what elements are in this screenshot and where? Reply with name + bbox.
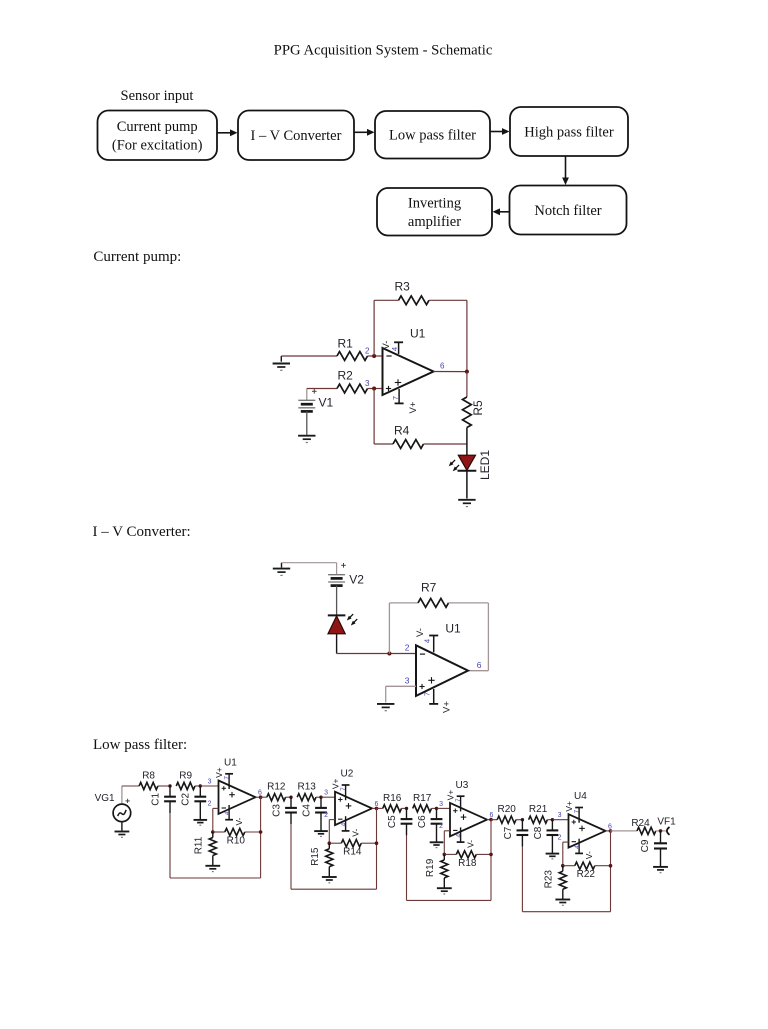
svg-text:V2: V2 [349, 572, 364, 586]
svg-text:R16: R16 [383, 793, 402, 804]
node R18 junction [489, 853, 493, 857]
svg-text:V-: V- [234, 817, 244, 825]
node junction pin2 (I-V) [387, 652, 391, 656]
resistor R18 [456, 851, 477, 869]
node feedback junction (stage 1) [211, 830, 215, 834]
ground (LED1) [458, 500, 475, 507]
svg-text:4: 4 [574, 845, 581, 849]
arrow low pass to high pass [490, 128, 510, 135]
svg-text:(For excitation): (For excitation) [112, 137, 203, 153]
wire R4 to LED column [424, 443, 467, 445]
wire photodiode to op-amp pin 2 [337, 634, 416, 654]
wire output to R5 [466, 372, 468, 397]
svg-text:V-: V- [350, 829, 360, 837]
wire output to feedback (stage 4) [610, 831, 612, 866]
ground (R11) [205, 866, 220, 872]
svg-text:V+: V+ [564, 801, 574, 812]
wire node to op-amp pin 3 (stage 3) [437, 807, 451, 809]
svg-text:C7: C7 [503, 826, 514, 839]
wire to R10 [213, 831, 225, 833]
node C4 [319, 796, 322, 799]
wire R1 to op-amp pin 2 [368, 355, 383, 357]
ground (C6) [430, 842, 444, 847]
svg-text:7: 7 [224, 776, 231, 780]
V- supply bar (stage 1) (pin 4) [224, 805, 244, 826]
title text [274, 43, 493, 59]
svg-text:R8: R8 [142, 771, 155, 782]
wire op-amp pin 2 down (stage 3) [444, 831, 450, 855]
svg-text:R5: R5 [471, 400, 485, 416]
node output junction (stage 2) [375, 807, 379, 811]
node junction pin2 [372, 354, 376, 358]
svg-text:4: 4 [423, 639, 432, 643]
op-amp U1 (I-V) [416, 622, 468, 696]
section label I-V Converter [93, 524, 191, 540]
svg-text:R19: R19 [425, 858, 436, 877]
svg-text:V1: V1 [319, 396, 334, 410]
node feedback junction (stage 4) [561, 864, 565, 868]
ground (current pump input) [273, 356, 290, 370]
op-amp U1 [219, 758, 256, 814]
wire R9 to node [195, 785, 200, 787]
wire R7 to output [449, 603, 489, 671]
wire op-amp output (stage 3) [487, 819, 491, 821]
section label Current pump [93, 249, 181, 265]
resistor R19 [425, 854, 448, 888]
svg-text:3: 3 [558, 812, 562, 819]
resistor R24 [631, 818, 655, 835]
svg-text:V-: V- [465, 840, 475, 848]
wire R14 to output column [361, 842, 376, 844]
svg-text:Sensor input: Sensor input [121, 88, 194, 104]
wire op-amp pin 3 to ground [386, 686, 416, 702]
svg-text:Current pump: Current pump [117, 119, 198, 135]
ground (R19) [437, 888, 452, 894]
ground (R23) [555, 900, 570, 906]
svg-text:3: 3 [324, 790, 328, 797]
wire C7 to feedback rail [522, 847, 610, 912]
resistor R22 [575, 862, 596, 880]
pin 6 label (stage 3) [490, 812, 494, 819]
svg-text:R14: R14 [343, 847, 362, 858]
wire R10 to output column [245, 831, 261, 833]
node output junction [465, 370, 469, 374]
node feedback junction (stage 3) [443, 853, 447, 857]
svg-text:7: 7 [574, 809, 581, 813]
svg-text:V-: V- [584, 851, 594, 859]
op-amp U1 (current pump) [383, 327, 434, 396]
resistor R2 [337, 369, 368, 393]
svg-text:U4: U4 [574, 791, 587, 802]
svg-text:R9: R9 [179, 771, 192, 782]
pin 2 label (stage 4) [558, 834, 562, 841]
svg-text:C1: C1 [150, 792, 161, 805]
wire V1 to ground [306, 411, 308, 434]
arrow current pump to I-V [217, 129, 238, 136]
svg-text:R3: R3 [395, 280, 411, 294]
LED LED1 [449, 450, 493, 480]
capacitor C2 [181, 786, 207, 820]
pin 6 label [440, 362, 445, 371]
svg-text:4: 4 [390, 347, 399, 351]
svg-text:7: 7 [391, 396, 400, 400]
battery V1 [298, 396, 333, 412]
op-amp U3 [450, 780, 487, 836]
block Current pump [98, 111, 218, 161]
resistor R8 [139, 771, 158, 790]
ground (C2) [194, 820, 208, 825]
svg-text:C2: C2 [181, 792, 192, 805]
resistor R10 [225, 828, 246, 846]
arrow I-V to low pass [354, 129, 375, 136]
wire op-amp pin 2 down (stage 4) [563, 842, 569, 866]
block Low pass filter [375, 111, 490, 159]
svg-text:R24: R24 [631, 818, 650, 829]
wire R17 to node [432, 807, 437, 809]
ground (C9) [653, 867, 668, 873]
svg-text:I – V Converter:: I – V Converter: [93, 524, 191, 540]
node C6 [435, 807, 438, 810]
svg-text:C3: C3 [271, 804, 282, 817]
wire feedback up to R7 [389, 603, 418, 654]
resistor R12 [267, 782, 286, 801]
svg-text:R23: R23 [544, 870, 555, 889]
svg-text:7: 7 [423, 692, 432, 696]
capacitor C7 [503, 820, 529, 847]
block I-V Converter [238, 111, 354, 161]
svg-text:R18: R18 [458, 858, 477, 869]
V- supply bar (stage 4) (pin 4) [574, 839, 594, 860]
wire node to op-amp pin 3 (stage 1) [200, 785, 218, 787]
svg-text:U1: U1 [445, 622, 461, 636]
svg-text:V+: V+ [445, 790, 455, 801]
resistor R13 [297, 782, 316, 801]
wire R16 to node [402, 807, 407, 809]
node output junction (stage 1) [259, 795, 263, 799]
wire node to op-amp pin 3 (stage 4) [552, 819, 568, 821]
wire C5 to feedback rail [407, 835, 492, 900]
svg-text:V+: V+ [330, 778, 340, 789]
wire R18 to output column [476, 853, 491, 855]
svg-text:7: 7 [455, 798, 462, 802]
wire R5 to LED1 [466, 428, 468, 456]
svg-text:4: 4 [224, 811, 231, 815]
ground (V2) [273, 563, 290, 576]
arrow notch to inverting [493, 208, 510, 215]
node output junction (stage 4) [609, 829, 613, 833]
svg-text:V+: V+ [214, 767, 224, 778]
svg-text:R20: R20 [498, 804, 517, 815]
svg-text:R4: R4 [394, 424, 410, 438]
wire op-amp output (stage 2) [372, 807, 377, 809]
svg-text:R22: R22 [577, 869, 596, 880]
resistor R14 [341, 840, 362, 858]
svg-text:2: 2 [324, 812, 328, 819]
wire R24 to VF1 [656, 830, 667, 832]
V+ supply bar (stage 3) (pin 7) [445, 790, 464, 812]
svg-text:2: 2 [405, 643, 410, 653]
ground (V1) [298, 436, 315, 443]
node C8 [551, 818, 554, 821]
wire R12 to node [286, 796, 291, 798]
svg-text:3: 3 [405, 676, 410, 686]
pin 2 label (I-V) [405, 643, 410, 653]
svg-text:2: 2 [365, 347, 370, 356]
resistor R5 [463, 397, 486, 428]
svg-text:Low pass filter: Low pass filter [389, 128, 476, 144]
op-amp U4 [569, 791, 606, 847]
node C5 [405, 807, 408, 810]
svg-text:2: 2 [558, 834, 562, 841]
svg-text:3: 3 [365, 379, 370, 388]
pin 3 label (stage 2) [324, 790, 328, 797]
resistor R16 [383, 793, 402, 812]
pin 3 label (stage 4) [558, 812, 562, 819]
resistor R4 [393, 424, 424, 449]
V+ supply bar (I-V pin 7) [423, 689, 453, 713]
wire C1 to feedback rail [170, 813, 261, 878]
svg-text:Notch filter: Notch filter [534, 203, 601, 219]
capacitor C5 [387, 808, 413, 835]
pin 3 label [365, 379, 370, 388]
wire op-amp output (stage 4) [606, 830, 611, 832]
node junction pin3 [372, 387, 376, 391]
pin 2 label (stage 1) [208, 801, 212, 808]
pin 6 label (stage 1) [258, 790, 262, 797]
svg-text:R17: R17 [413, 793, 432, 804]
svg-text:C8: C8 [533, 826, 544, 839]
op-amp U2 [335, 769, 372, 825]
capacitor C8 [533, 820, 559, 854]
V- supply bar (I-V pin 4) [415, 628, 438, 652]
resistor R7 [418, 581, 449, 608]
svg-text:V+: V+ [442, 701, 453, 713]
node R10 junction [259, 830, 263, 834]
svg-text:I – V Converter: I – V Converter [251, 128, 342, 144]
wire to R16 [377, 807, 383, 809]
svg-text:R11: R11 [194, 836, 205, 854]
resistor R23 [544, 866, 567, 900]
svg-text:3: 3 [208, 779, 212, 786]
svg-text:6: 6 [440, 362, 445, 371]
svg-text:PPG Acquisition System - Schem: PPG Acquisition System - Schematic [274, 43, 493, 59]
plus sign V1 terminal [312, 389, 317, 394]
V- supply bar (stage 3) (pin 4) [455, 827, 475, 848]
svg-text:U1: U1 [224, 758, 237, 769]
section label Low pass filter [93, 737, 187, 753]
svg-text:R15: R15 [310, 847, 321, 866]
svg-text:R12: R12 [267, 782, 286, 793]
battery V2 [328, 572, 364, 586]
V+ supply bar (pin 7) [391, 389, 419, 413]
svg-text:High pass filter: High pass filter [524, 125, 614, 141]
wire U4 output to R24 [611, 830, 638, 832]
V+ supply bar (stage 4) (pin 7) [564, 801, 583, 823]
svg-text:VF1: VF1 [657, 817, 676, 828]
wire output to feedback (stage 3) [490, 820, 492, 855]
svg-text:2: 2 [439, 823, 443, 830]
wire to R8 [122, 785, 139, 787]
V+ supply bar (stage 1) (pin 7) [214, 767, 233, 789]
pin 2 label (stage 2) [324, 812, 328, 819]
block Notch filter [510, 186, 627, 235]
V- supply bar (stage 2) (pin 4) [340, 816, 360, 837]
capacitor C4 [301, 797, 327, 831]
svg-text:V-: V- [415, 628, 426, 637]
photodiode D1 [328, 614, 357, 634]
svg-text:C4: C4 [301, 804, 312, 817]
resistor R3 [395, 280, 430, 305]
svg-text:amplifier: amplifier [408, 214, 461, 230]
capacitor C9 [640, 831, 667, 867]
wire to R20 [491, 819, 497, 821]
capacitor C6 [417, 808, 443, 842]
svg-text:R2: R2 [338, 369, 354, 383]
pin 6 label (stage 2) [375, 801, 379, 808]
wire ground to R1 [281, 355, 337, 357]
wire op-amp pin 2 down (stage 2) [329, 820, 335, 844]
wire R21 to node [547, 819, 552, 821]
resistor R21 [529, 804, 548, 823]
node C3 [289, 796, 292, 799]
wire LED1 to ground [466, 471, 468, 499]
wire node to op-amp pin 3 (stage 2) [321, 796, 335, 798]
wire R3 to output column [429, 300, 467, 371]
wire op-amp pin 2 down (stage 1) [213, 808, 219, 832]
resistor R20 [497, 804, 516, 823]
svg-text:U3: U3 [456, 780, 469, 791]
svg-text:U1: U1 [410, 327, 426, 341]
pin 2 label [365, 347, 370, 356]
wire C3 to feedback rail [291, 824, 377, 889]
terminal VF1 [657, 817, 676, 835]
wire to R18 [444, 853, 456, 855]
ground (C4) [314, 831, 328, 836]
svg-text:2: 2 [208, 801, 212, 808]
pin 3 label (I-V) [405, 676, 410, 686]
wire to R22 [563, 865, 575, 867]
svg-text:R10: R10 [227, 836, 246, 847]
node C2 [199, 784, 202, 787]
resistor R17 [413, 793, 432, 812]
svg-text:LED1: LED1 [478, 450, 492, 480]
wire output to feedback (stage 2) [376, 808, 378, 843]
node R14 junction [375, 841, 379, 845]
svg-text:6: 6 [477, 660, 482, 670]
wire to R14 [329, 842, 341, 844]
V- supply bar (pin 4) [381, 341, 403, 354]
wire V2 to photodiode [336, 586, 338, 616]
resistor R11 [194, 832, 217, 866]
svg-text:VG1: VG1 [95, 793, 115, 804]
svg-text:R13: R13 [298, 782, 317, 793]
wire output to feedback (stage 1) [260, 797, 262, 832]
block Inverting amplifier [377, 188, 492, 236]
node output junction (stage 3) [489, 818, 493, 822]
svg-text:C9: C9 [640, 839, 651, 852]
resistor R15 [310, 843, 333, 877]
wire R22 to output column [595, 865, 611, 867]
svg-text:Inverting: Inverting [408, 195, 461, 211]
block High pass filter [510, 107, 628, 156]
svg-text:Low pass filter:: Low pass filter: [93, 737, 187, 753]
svg-text:R21: R21 [529, 804, 548, 815]
source VG1 [95, 786, 131, 822]
arrow high pass to notch [562, 156, 569, 185]
wire junction up to R3 [374, 300, 398, 356]
pin 3 label (stage 1) [208, 779, 212, 786]
resistor R1 [337, 337, 368, 361]
ground (VG1) [115, 832, 130, 838]
wire op-amp output (stage 1) [256, 796, 261, 798]
svg-text:4: 4 [340, 822, 347, 826]
svg-text:C5: C5 [387, 815, 398, 828]
svg-text:R7: R7 [421, 581, 437, 595]
svg-text:V+: V+ [408, 401, 419, 413]
ground (I-V pin 3) [377, 704, 394, 711]
wire ground to V2 [282, 563, 337, 575]
pin 6 label (I-V) [477, 660, 482, 670]
node feedback junction (stage 2) [328, 841, 332, 845]
resistor R9 [176, 771, 195, 790]
pin 2 label (stage 3) [439, 823, 443, 830]
wire VG1 to ground [121, 822, 123, 831]
pin 3 label (stage 3) [439, 801, 443, 808]
svg-text:C6: C6 [417, 815, 428, 828]
wire R13 to node [316, 796, 321, 798]
node C1 [168, 784, 171, 787]
node C7 [521, 818, 524, 821]
capacitor C3 [271, 797, 297, 824]
ground (C8) [546, 854, 560, 859]
pin 6 label (stage 4) [608, 823, 612, 830]
wire to R12 [261, 796, 267, 798]
node VF1 junction [659, 829, 663, 833]
wire junction down to R4 [374, 389, 393, 445]
svg-text:R1: R1 [338, 337, 354, 351]
wire R20 to node [516, 819, 522, 821]
svg-text:Current pump:: Current pump: [93, 249, 181, 265]
svg-text:4: 4 [455, 834, 462, 838]
wire op-amp output [434, 371, 467, 373]
plus sign V2 terminal [341, 563, 346, 568]
node R22 junction [609, 864, 613, 868]
capacitor C1 [150, 786, 176, 813]
ground (R15) [322, 877, 337, 883]
svg-text:7: 7 [340, 787, 347, 791]
svg-text:U2: U2 [341, 769, 354, 780]
wire R8 to node [158, 785, 170, 787]
wire V1 to R2 [307, 389, 337, 401]
label Sensor input [121, 88, 194, 104]
svg-text:3: 3 [439, 801, 443, 808]
wire R2 to op-amp pin 3 [368, 388, 383, 390]
V+ supply bar (stage 2) (pin 7) [330, 778, 349, 800]
